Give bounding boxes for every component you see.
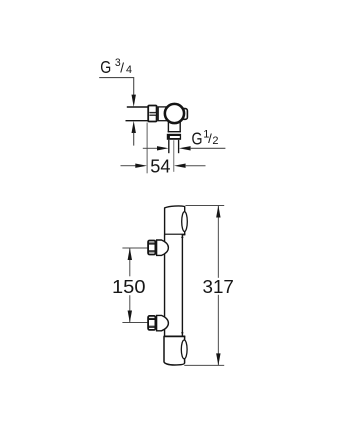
dimension 54 right arrow [174,164,186,168]
top union nut [148,241,155,255]
union nut (side view) [148,106,156,122]
body chamfer tick top [181,236,183,238]
dimension 150 line upper segment [129,248,131,276]
body chamfer tick bottom [181,332,183,334]
bottom adapter dome [157,315,169,330]
G 1/2 dimension left arrow [143,147,158,149]
outlet pipe centre line [173,140,175,172]
neck right line [179,122,181,133]
arrow tail below pipe [133,133,135,146]
dimension 317 line upper segment [217,206,219,278]
top handle ellipse [182,212,188,232]
top adapter dome [157,240,169,255]
dimension 150 arrow up [128,248,132,260]
dimension 317 top extension line [185,204,224,206]
svg-text:4: 4 [126,64,132,76]
label G 1/2 [192,128,219,148]
svg-text:2: 2 [212,135,218,147]
outlet collar [167,134,181,140]
neck left line [167,122,169,133]
right bump on valve body [182,109,188,120]
leader to top union nut [122,247,147,249]
svg-text:G: G [100,57,111,77]
outlet pipe left line [168,140,170,153]
dimension 317 line lower segment [217,295,219,366]
leader line G 3/4 [99,78,134,96]
G 1/2 dimension right arrow [179,146,191,150]
outlet pipe right line [178,140,180,153]
supply pipe top line [127,106,149,108]
bottom handle ellipse [181,340,187,359]
bottom cap separator [164,335,186,337]
dimension 150 line lower segment [129,295,131,322]
nut facet band [150,113,156,115]
label G 3/4 [100,57,132,77]
svg-text:G: G [192,129,203,149]
thermostat bottom cap [164,337,185,366]
top cap separator [164,234,185,236]
dimension 317 arrow down [216,353,220,365]
dimension 317 bottom extension line [184,364,224,366]
svg-text:54: 54 [150,156,170,177]
arrow up to pipe bottom [132,121,136,133]
dimension 54 left arrow [121,165,136,167]
thermostat body fill [165,235,182,336]
neck bottom edge [168,131,181,133]
body right edge [181,235,183,337]
body left edge [164,235,166,337]
dimension 54 left extension line [146,123,148,174]
valve body circle [165,104,184,123]
svg-text:/: / [120,60,124,75]
leader to bottom union nut [122,322,147,324]
supply pipe bottom line [126,120,149,122]
spacer collar between nut and valve body [158,107,167,121]
arrow down to pipe top [132,95,136,107]
dimension 317 arrow up [216,205,220,217]
svg-text:317: 317 [203,276,234,297]
svg-text:150: 150 [112,276,146,297]
bottom union nut [148,316,155,330]
thermostat top cap [165,206,185,235]
dimension 150 arrow down [128,311,132,323]
